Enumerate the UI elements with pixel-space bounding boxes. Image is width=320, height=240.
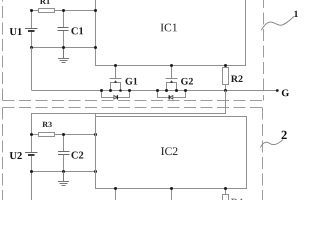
label 2 <box>282 131 287 139</box>
resistor R2 <box>223 66 229 91</box>
node section2 rail1 junctions <box>30 133 97 136</box>
node G terminal <box>276 89 279 92</box>
node rail1 junctions <box>30 9 97 12</box>
capacitor C2 <box>58 135 70 172</box>
dashed border box 2 <box>3 108 263 207</box>
label G1 <box>125 78 137 85</box>
IC block IC1 <box>96 0 246 66</box>
ground <box>58 172 69 186</box>
capacitor C1 <box>58 11 69 48</box>
resistor R3 <box>39 133 55 137</box>
node R4 top <box>224 187 227 190</box>
label C1 <box>71 27 83 34</box>
node IC2 pins <box>114 187 173 190</box>
label U1 <box>10 28 22 35</box>
node G2 drain <box>170 64 173 67</box>
node G1 legs <box>109 89 122 92</box>
label G <box>282 89 289 96</box>
label 1 <box>294 11 298 17</box>
wire lower rail section1 <box>32 47 96 49</box>
wire main G rail <box>32 48 278 91</box>
resistor R4 <box>223 189 229 204</box>
node section2 rail2 junctions <box>30 170 97 173</box>
label R2 <box>231 75 243 82</box>
wire IC2 pin stubs <box>116 189 172 202</box>
node D1 terminals <box>100 89 131 92</box>
node R2 top <box>224 64 227 67</box>
transistor G2 <box>166 66 178 91</box>
node rail2 junctions <box>30 46 97 49</box>
node G1 drain <box>114 64 117 67</box>
label R3 <box>42 122 51 127</box>
transistor G1 <box>110 66 122 91</box>
leader line 1 <box>261 16 294 30</box>
diode D1 body loop <box>102 91 130 100</box>
label C2 <box>71 152 83 159</box>
wire lower rail section2 <box>32 172 96 202</box>
node G2 legs <box>165 89 178 92</box>
label G2 <box>181 78 193 85</box>
resistor R1 <box>39 9 55 13</box>
wire top rail section2 <box>32 134 96 136</box>
ground <box>58 48 69 63</box>
label IC1 <box>161 24 177 32</box>
diode D2 body loop <box>158 91 186 100</box>
IC block IC2 <box>96 117 247 189</box>
node R2 bottom <box>224 89 227 92</box>
dashed border box 1 <box>3 0 264 101</box>
wire R2 feed to section2 <box>32 91 226 135</box>
label U2 <box>10 152 22 159</box>
leader line 2 <box>260 140 283 148</box>
label R1 <box>40 0 50 4</box>
battery U2 <box>25 135 38 172</box>
label IC2 <box>161 147 177 155</box>
node D2 terminals <box>156 89 187 92</box>
battery U1 <box>25 11 38 48</box>
wire top rail section1 <box>32 10 96 12</box>
label R4 <box>231 199 243 206</box>
